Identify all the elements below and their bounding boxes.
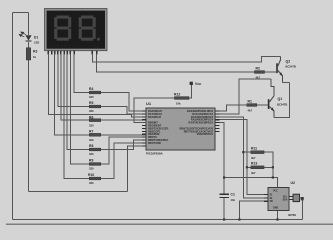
resistor R12 [174, 92, 189, 105]
svg-text:D1: D1 [34, 36, 38, 40]
wire segment A to R4 [74, 54, 89, 93]
wire segment C to R6 [61, 54, 89, 121]
wire segment DP to U1 [48, 54, 146, 117]
svg-text:18: 18 [94, 44, 100, 49]
svg-text:LED: LED [34, 40, 39, 44]
wire common 2 to R2 [97, 54, 255, 72]
transistor Q2 [276, 57, 296, 83]
wire R1 to U1 RA0 [220, 105, 247, 111]
svg-text:R2: R2 [256, 66, 260, 70]
wire node LED net to U1 RB7 [128, 146, 147, 192]
svg-text:R13: R13 [251, 162, 257, 166]
svg-text:VSS/VPP/THV: VSS/VPP/THV [197, 133, 214, 136]
svg-text:1k: 1k [33, 55, 36, 59]
U2 left pin stubs [264, 194, 293, 201]
power terminal Vcc [190, 82, 202, 87]
resistor R11 [251, 147, 264, 160]
svg-text:GND: GND [273, 208, 278, 210]
display DISP1 7SEG-MPX2 body [45, 9, 108, 51]
resistor R13 [251, 162, 264, 175]
wire Q1 emitter to emitter node [274, 83, 289, 118]
svg-text:330: 330 [89, 138, 94, 142]
wire segment D to R7 [55, 54, 90, 136]
wire U2 GND pin to rail [239, 201, 268, 219]
resistor R6 [89, 115, 101, 127]
wire R6 to U1 [101, 119, 146, 121]
wire SCL U1 to U2 [220, 120, 269, 195]
svg-text:R10: R10 [88, 173, 94, 177]
svg-text:R8: R8 [89, 144, 93, 148]
svg-text:R4: R4 [89, 87, 93, 91]
resistor R5 [89, 101, 101, 113]
wire C1 to rail [223, 198, 225, 220]
svg-text:R7: R7 [89, 130, 93, 134]
svg-text:BC547B: BC547B [277, 102, 287, 106]
svg-text:RB7/T1OSI: RB7/T1OSI [148, 142, 161, 145]
svg-text:330: 330 [89, 124, 94, 128]
resistor R10 [88, 173, 101, 185]
wire segment F to R9 [70, 54, 89, 165]
svg-text:32768: 32768 [288, 213, 296, 217]
svg-text:330: 330 [89, 95, 94, 99]
svg-text:4k7: 4k7 [251, 171, 256, 175]
display digit 1 segments [54, 16, 71, 41]
svg-text:C1: C1 [231, 192, 235, 196]
svg-text:330: 330 [89, 152, 94, 156]
wire segment E to R8 [67, 54, 89, 150]
svg-text:Vcc: Vcc [195, 82, 201, 86]
svg-text:U2: U2 [291, 181, 296, 185]
U1 left pin name labels [148, 110, 169, 145]
wire R13 tap [247, 166, 251, 168]
svg-text:330: 330 [89, 167, 94, 171]
svg-text:10k: 10k [176, 102, 181, 106]
resistor R9 [89, 159, 101, 171]
U1 left pin stubs [142, 111, 146, 146]
wire top loop horizontal [13, 12, 29, 14]
resistor R1 [247, 99, 257, 112]
svg-text:Q1: Q1 [278, 97, 283, 101]
wire R5 to U1 RB2 [101, 107, 146, 114]
junction dots [223, 151, 279, 220]
svg-text:R9: R9 [89, 159, 93, 163]
wire R11 tap [243, 151, 251, 153]
svg-text:Q2: Q2 [286, 60, 291, 64]
svg-text:330: 330 [89, 181, 94, 185]
wire Vcc line U1 to U2 [220, 123, 278, 194]
wire R10 to U1 [101, 143, 146, 179]
crystal X1 [288, 194, 304, 219]
wire R12 to Vcc [189, 85, 191, 98]
svg-text:R1: R1 [248, 99, 252, 103]
diode D1 LED [19, 32, 39, 44]
svg-text:10n: 10n [231, 198, 236, 202]
wire U2 bottom pin to rail [277, 211, 279, 220]
wire node LED net horizontal [29, 191, 128, 193]
wire segment G to R10 [64, 54, 89, 179]
resistor R4 [89, 87, 101, 99]
IC U2 DS1307 [268, 181, 295, 211]
svg-text:MCD2S2 DP: MCD2S2 DP [48, 44, 81, 49]
wire Q2 emitter to emitter node [283, 82, 290, 84]
svg-text:SCL: SCL [283, 196, 288, 198]
svg-text:R11: R11 [251, 147, 257, 151]
wire ground rail bottom [13, 219, 303, 221]
svg-text:R5: R5 [89, 101, 93, 105]
wire R1 to Q1 base [257, 104, 268, 106]
resistor R8 [89, 144, 101, 156]
svg-text:VCC: VCC [273, 191, 278, 193]
svg-text:RA4/T0CKI/CMP2/C5: RA4/T0CKI/CMP2/C5 [189, 122, 214, 125]
transistor Q1 [268, 79, 288, 118]
wire R2 to Q2 base [265, 71, 277, 73]
wire R12 to U1 MCLR [134, 98, 175, 123]
svg-text:4k7: 4k7 [248, 109, 253, 113]
capacitor C1 [220, 192, 236, 202]
svg-text:BC547B: BC547B [286, 65, 296, 69]
svg-text:VB: VB [270, 201, 274, 203]
U1 right pin name labels [180, 110, 214, 136]
wire common 1 to Q2 collector [92, 54, 280, 63]
wire R3 down [28, 60, 30, 192]
wire D1 anode [28, 13, 30, 35]
svg-text:R3: R3 [33, 50, 37, 54]
wire D1 to R3 [28, 42, 30, 48]
wire R11 R13 right join [264, 152, 273, 177]
svg-text:R6: R6 [89, 115, 93, 119]
wire segment B to R5 [58, 54, 90, 107]
U1 right pin stubs [215, 111, 220, 131]
wire R4 to U1 RB1 [101, 93, 146, 112]
display digit 2 segments [79, 16, 100, 41]
svg-text:R12: R12 [174, 92, 180, 96]
wire SDA U1 to U2 [220, 117, 269, 198]
resistor R3 [26, 48, 37, 60]
sheet bottom edge line [6, 223, 333, 225]
resistor R7 [89, 130, 101, 142]
wire left outer vertical [12, 13, 14, 220]
svg-text:RA5/MCLR: RA5/MCLR [148, 116, 161, 119]
svg-text:PIC16F628A: PIC16F628A [146, 151, 164, 155]
resistor R2 [255, 66, 265, 79]
svg-text:330: 330 [89, 109, 94, 113]
wire R8 to U1 [101, 140, 146, 150]
wire R7 to U1 [101, 134, 146, 136]
svg-text:4k7: 4k7 [251, 156, 256, 160]
wire R9 to U1 [101, 137, 146, 164]
op-amp U1 microcontroller PIC16F628A [146, 101, 215, 155]
svg-text:U1: U1 [146, 101, 152, 106]
display segment pin stubs [48, 51, 96, 55]
svg-text:SDA: SDA [283, 199, 288, 202]
wire Q1 collector to U1 RA1 [220, 79, 271, 114]
